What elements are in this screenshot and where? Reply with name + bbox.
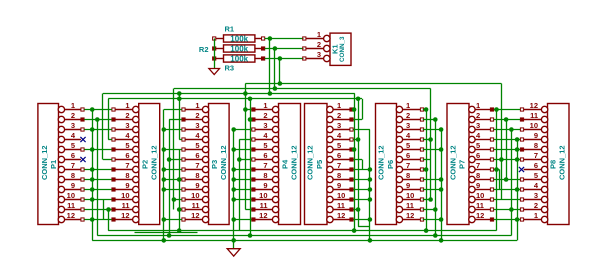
svg-text:12: 12 [121, 211, 129, 220]
wire [103, 159, 112, 161]
svg-text:6: 6 [195, 151, 199, 160]
wire [353, 139, 358, 141]
wire [353, 179, 370, 181]
svg-text:CONN_12: CONN_12 [219, 145, 228, 180]
svg-text:10: 10 [259, 191, 267, 200]
wire [163, 110, 165, 241]
svg-text:CONN_12: CONN_12 [150, 145, 159, 180]
wire R1 to K1 pin 1 [265, 38, 304, 40]
junction [515, 147, 520, 152]
wire bus A right drop [501, 84, 503, 200]
resistor R1 [213, 35, 265, 42]
svg-text:10: 10 [191, 191, 199, 200]
junction [515, 137, 520, 142]
svg-text:11: 11 [122, 201, 130, 210]
svg-text:10: 10 [530, 121, 538, 130]
junction [515, 217, 520, 222]
svg-text:5: 5 [406, 141, 410, 150]
junction [172, 197, 177, 202]
K1 value label CONN_3 [339, 36, 346, 62]
P1 pin numbers [67, 101, 76, 220]
connector P5 (CONN_12) [305, 104, 354, 225]
junction [231, 187, 236, 192]
P2 reference P2 [141, 160, 150, 169]
svg-text:8: 8 [476, 171, 480, 180]
svg-text:11: 11 [260, 201, 268, 210]
svg-text:2: 2 [195, 111, 199, 120]
svg-text:10: 10 [121, 191, 129, 200]
junction [231, 238, 236, 243]
svg-text:5: 5 [337, 141, 341, 150]
wire [353, 199, 370, 201]
wire [250, 99, 252, 236]
wire [84, 169, 111, 171]
svg-text:6: 6 [534, 161, 538, 170]
wire [234, 189, 252, 191]
wire [169, 159, 182, 161]
svg-text:12: 12 [406, 211, 414, 220]
svg-text:5: 5 [534, 171, 538, 180]
wire [234, 219, 252, 221]
wire R2 to K1 pin 2 [265, 48, 304, 50]
svg-text:10: 10 [337, 191, 345, 200]
svg-text:12: 12 [476, 211, 484, 220]
wire bottom bus 1 [108, 230, 496, 232]
wire [84, 209, 111, 211]
wire [494, 139, 520, 141]
junction [439, 238, 444, 243]
junction [428, 137, 433, 142]
junction [90, 127, 95, 132]
svg-text:9: 9 [337, 181, 341, 190]
junction [95, 117, 100, 122]
wire [353, 119, 362, 121]
svg-text:7: 7 [195, 161, 199, 170]
wire [423, 149, 441, 151]
junction [162, 147, 167, 152]
P1 value label CONN_12 [40, 145, 49, 180]
svg-text:7: 7 [71, 161, 75, 170]
junction [177, 97, 182, 102]
wire [353, 159, 362, 161]
junction [162, 177, 167, 182]
wire R3 to K1 pin 3 [265, 58, 304, 60]
P7 reference P7 [458, 160, 467, 169]
R2 reference [199, 45, 209, 54]
P5 pin numbers [337, 101, 345, 220]
wire bus B left drop [173, 89, 175, 210]
junction [509, 127, 514, 132]
connector P8 (CONN_12) [519, 104, 569, 225]
wire [84, 219, 111, 221]
wire [423, 179, 441, 181]
svg-text:8: 8 [195, 171, 199, 180]
wire [499, 170, 501, 190]
svg-text:R1: R1 [225, 25, 235, 34]
svg-text:5: 5 [476, 141, 480, 150]
wire [103, 200, 105, 220]
connector P6 (CONN_12) [376, 104, 424, 225]
junction [90, 167, 95, 172]
svg-text:3: 3 [125, 121, 129, 130]
connector P3 (CONN_12) [182, 104, 229, 225]
svg-text:6: 6 [406, 151, 410, 160]
wire [353, 129, 370, 131]
svg-text:8: 8 [125, 171, 129, 180]
junction [162, 217, 167, 222]
svg-text:R2: R2 [199, 45, 209, 54]
svg-text:3: 3 [406, 121, 410, 130]
svg-text:8: 8 [263, 171, 267, 180]
wire [84, 109, 111, 111]
junction [90, 107, 95, 112]
svg-text:1: 1 [406, 101, 410, 110]
svg-text:7: 7 [534, 151, 538, 160]
wire [353, 169, 370, 171]
svg-text:2: 2 [317, 40, 321, 49]
svg-text:6: 6 [476, 151, 480, 160]
junction [494, 167, 499, 172]
wire [234, 179, 252, 181]
junction [368, 167, 373, 172]
wire [179, 94, 181, 140]
wire [423, 199, 431, 201]
svg-text:7: 7 [125, 161, 129, 170]
resistor R3 [213, 55, 265, 62]
wire [496, 110, 498, 231]
junction [439, 127, 444, 132]
svg-text:12: 12 [259, 211, 267, 220]
wire [423, 219, 441, 221]
svg-text:6: 6 [337, 151, 341, 160]
svg-text:100k: 100k [230, 54, 248, 63]
svg-text:1: 1 [534, 211, 538, 220]
wire [174, 199, 182, 201]
junction [106, 207, 111, 212]
ground [227, 249, 240, 256]
wire net R3 down [279, 59, 281, 84]
wire [494, 219, 520, 221]
P3 pin numbers [191, 101, 200, 220]
junction [90, 177, 95, 182]
junction [162, 127, 167, 132]
svg-text:7: 7 [263, 161, 267, 170]
svg-text:8: 8 [406, 171, 410, 180]
svg-text:CONN_12: CONN_12 [290, 145, 299, 180]
junction [515, 157, 520, 162]
connector P4 (CONN_12) [252, 104, 301, 225]
junction [231, 197, 236, 202]
junction [90, 197, 95, 202]
P8 value label CONN_12 [558, 145, 567, 180]
svg-text:8: 8 [337, 171, 341, 180]
resistor R2 [213, 45, 265, 52]
svg-text:P1: P1 [49, 160, 58, 169]
K1 pin numbers [317, 30, 321, 59]
svg-text:100k: 100k [230, 34, 248, 43]
wire ground stub [233, 240, 235, 248]
svg-text:3: 3 [317, 50, 321, 59]
wire [506, 120, 508, 180]
junction [162, 187, 167, 192]
wire [164, 129, 182, 131]
svg-text:1: 1 [317, 30, 321, 39]
connector K1 (CONN_3) [303, 33, 351, 65]
svg-text:7: 7 [337, 161, 341, 170]
wire bus B right drop [430, 89, 432, 200]
svg-text:9: 9 [406, 181, 410, 190]
svg-text:9: 9 [476, 181, 480, 190]
svg-text:P3: P3 [210, 160, 219, 169]
junction [177, 228, 182, 233]
P6 value label CONN_12 [377, 145, 386, 180]
svg-text:5: 5 [195, 141, 199, 150]
wire [494, 199, 520, 201]
junction [231, 177, 236, 182]
wire bus A left drop [245, 84, 247, 94]
wire [423, 169, 426, 171]
svg-text:3: 3 [195, 121, 199, 130]
svg-text:1: 1 [125, 101, 129, 110]
junction [273, 46, 278, 51]
junction [439, 217, 444, 222]
junction [90, 187, 95, 192]
ground [209, 69, 220, 75]
wire [494, 109, 520, 111]
svg-text:P4: P4 [281, 159, 290, 169]
wire [239, 140, 241, 231]
junction [231, 147, 236, 152]
junction [433, 233, 438, 238]
svg-text:11: 11 [67, 201, 75, 210]
wire [352, 109, 355, 111]
junction [356, 97, 361, 102]
junction [352, 147, 357, 152]
P4 value label CONN_12 [290, 145, 299, 180]
wire [369, 130, 371, 241]
junction [494, 107, 499, 112]
svg-text:8: 8 [534, 141, 538, 150]
P6 reference P6 [386, 160, 395, 169]
wire bus C [103, 93, 355, 95]
svg-text:10: 10 [67, 191, 75, 200]
junction [273, 86, 278, 91]
svg-text:2: 2 [406, 111, 410, 120]
junction [268, 36, 273, 41]
wire net R2 down [274, 49, 276, 89]
svg-text:2: 2 [71, 111, 75, 120]
junction [433, 207, 438, 212]
wire [435, 120, 437, 236]
svg-text:1: 1 [195, 101, 199, 110]
junction [428, 197, 433, 202]
junction [368, 177, 373, 182]
wire [423, 159, 431, 161]
svg-text:9: 9 [534, 131, 538, 140]
wire [353, 209, 358, 211]
wire [84, 149, 111, 151]
wire [423, 119, 436, 121]
P7 pin numbers [476, 101, 484, 220]
junction [504, 117, 509, 122]
wire [511, 130, 513, 236]
wire [494, 179, 520, 181]
junction [424, 167, 429, 172]
svg-text:CONN_12: CONN_12 [449, 145, 458, 180]
svg-text:1: 1 [263, 101, 267, 110]
P5 value label CONN_12 [306, 145, 315, 180]
svg-text:P2: P2 [141, 160, 150, 169]
svg-text:P6: P6 [386, 160, 395, 169]
wire bus D left drop [108, 99, 110, 140]
wire [233, 130, 235, 241]
junction [90, 217, 95, 222]
svg-text:5: 5 [125, 141, 129, 150]
junction [243, 91, 248, 96]
junction [248, 97, 253, 102]
junction [162, 238, 167, 243]
wire [164, 219, 182, 221]
wire [169, 120, 171, 236]
svg-text:R3: R3 [225, 64, 235, 73]
P3 value label CONN_12 [219, 145, 228, 180]
wire [164, 109, 182, 111]
wire [358, 99, 360, 227]
svg-text:2: 2 [263, 111, 267, 120]
junction [177, 91, 182, 96]
wire [423, 109, 426, 111]
wire bottom bus 4 [92, 240, 517, 242]
wire [353, 219, 370, 221]
svg-text:11: 11 [530, 111, 538, 120]
wire [164, 179, 182, 181]
P8 reference P8 [549, 160, 558, 169]
junction [356, 137, 361, 142]
wire stub [358, 226, 370, 228]
P4 pin numbers [259, 101, 268, 220]
wire resistor left common [214, 39, 216, 69]
R1 reference [225, 25, 235, 34]
wire [423, 189, 441, 191]
wire bus D [108, 98, 362, 100]
svg-text:10: 10 [476, 191, 484, 200]
wire [84, 179, 111, 181]
P3 reference P3 [210, 160, 219, 169]
svg-text:3: 3 [263, 121, 267, 130]
junction [352, 228, 357, 233]
junction [368, 187, 373, 192]
svg-text:7: 7 [476, 161, 480, 170]
K1 reference K1 [331, 44, 340, 54]
svg-text:P8: P8 [549, 160, 558, 169]
junction [231, 167, 236, 172]
svg-text:11: 11 [476, 201, 484, 210]
wire [517, 140, 519, 241]
wire bus D right drop [362, 99, 364, 120]
svg-text:7: 7 [406, 161, 410, 170]
wire bus C left drop [102, 94, 104, 160]
wire bus C right drop [354, 94, 356, 231]
wire [494, 169, 500, 171]
wire [84, 129, 111, 131]
svg-text:CONN_3: CONN_3 [339, 36, 346, 62]
P7 value label CONN_12 [449, 145, 458, 180]
junction [167, 157, 172, 162]
svg-text:P7: P7 [458, 160, 467, 169]
junction [368, 238, 373, 243]
R3 value 100k [230, 54, 248, 63]
svg-text:8: 8 [71, 171, 75, 180]
wire [179, 209, 182, 211]
junction [162, 167, 167, 172]
junction [237, 157, 242, 162]
junction [368, 217, 373, 222]
junction [278, 56, 283, 61]
junction [243, 107, 248, 112]
junction [433, 117, 438, 122]
wire [423, 129, 441, 131]
svg-text:CONN_12: CONN_12 [558, 145, 567, 180]
svg-text:5: 5 [263, 141, 267, 150]
junction [368, 197, 373, 202]
wire [234, 149, 252, 151]
wire [239, 139, 251, 141]
junction [356, 207, 361, 212]
P4 reference P4 [281, 159, 290, 169]
wire [426, 110, 428, 231]
R3 reference [225, 64, 235, 73]
svg-text:2: 2 [476, 111, 480, 120]
wire [97, 120, 99, 236]
svg-text:1: 1 [337, 101, 341, 110]
wire [353, 189, 370, 191]
junction [504, 177, 509, 182]
wire bottom bus 2 [135, 232, 198, 234]
wire [179, 139, 181, 141]
junction [352, 107, 357, 112]
svg-text:6: 6 [263, 151, 267, 160]
svg-text:9: 9 [125, 181, 129, 190]
svg-text:1: 1 [71, 101, 75, 110]
svg-text:9: 9 [195, 181, 199, 190]
wire [108, 139, 112, 141]
junction [509, 207, 514, 212]
connector P7 (CONN_12) [447, 104, 494, 225]
wire [92, 110, 94, 241]
svg-text:12: 12 [530, 101, 538, 110]
svg-text:1: 1 [476, 101, 480, 110]
svg-text:10: 10 [406, 191, 414, 200]
wire [169, 119, 182, 121]
wire [494, 189, 520, 191]
svg-text:P5: P5 [315, 160, 324, 169]
junction [167, 233, 172, 238]
junction [177, 177, 182, 182]
P1 reference P1 [49, 160, 58, 169]
wire [494, 159, 520, 161]
svg-text:3: 3 [534, 191, 538, 200]
junction [90, 147, 95, 152]
junction [515, 187, 520, 192]
wire bus B [174, 88, 431, 90]
junction [248, 117, 253, 122]
junction [424, 107, 429, 112]
junction [424, 228, 429, 233]
svg-text:2: 2 [125, 111, 129, 120]
svg-text:3: 3 [71, 121, 75, 130]
wire [494, 149, 520, 151]
wire [84, 119, 111, 121]
